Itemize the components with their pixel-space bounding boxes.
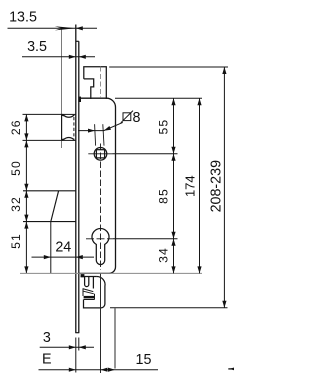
arrow E left (pointing right) — [69, 368, 76, 372]
left bracket slant edge — [51, 191, 59, 222]
arrow 13.5 right — [76, 26, 83, 30]
rod slot right hidden edge (dashed) — [73, 117, 75, 139]
extension line 3 right (faceplate back, below) — [78, 338, 80, 351]
lower piece ledge diagonal B — [83, 291, 94, 294]
arrow pair at 221.6 — [24, 215, 28, 229]
faceplate front edge — [75, 25, 77, 333]
arrow 13.5 left — [55, 26, 76, 30]
arrow 208-239 top up — [222, 67, 226, 74]
bottom screw mark — [81, 274, 85, 277]
slot bottom left tick — [62, 138, 64, 141]
arrow 208-239 bottom down — [222, 301, 226, 308]
arrow 24 right — [76, 255, 83, 259]
svg-text:34: 34 — [156, 247, 170, 263]
svg-text:51: 51 — [9, 233, 23, 249]
square symbol slash — [121, 111, 133, 123]
long extension line case bottom — [20, 272, 202, 274]
arrow pair at cylinder center — [171, 232, 175, 246]
svg-text:50: 50 — [9, 160, 23, 176]
svg-text:3: 3 — [43, 330, 51, 346]
projection line left — [95, 124, 96, 145]
extension line lower piece bottom (208-239 bottom) — [110, 307, 228, 309]
projection line right — [103, 124, 104, 145]
extension line cylinder center — [113, 238, 178, 240]
top connector notch step — [84, 79, 94, 99]
svg-text:32: 32 — [9, 196, 23, 212]
extension line case top — [115, 97, 202, 99]
dimension 24 line — [32, 256, 95, 258]
svg-text:208-239: 208-239 — [208, 160, 224, 213]
extension axis line below piece — [100, 274, 102, 373]
cropped arrow fragment at right edge — [230, 368, 235, 371]
faceplate back edge — [78, 41, 80, 332]
left chain extension slot bottom — [23, 139, 62, 141]
lower piece right shoulder and outline — [84, 277, 106, 308]
extension line case right edge below — [114, 308, 116, 368]
svg-text:85: 85 — [156, 188, 170, 204]
follower square 8mm — [96, 150, 104, 158]
rod slot top arc — [63, 115, 74, 117]
dimension 3.5 line — [22, 56, 95, 58]
dimension 13.5 line — [8, 27, 98, 29]
square 8 symbol — [123, 113, 131, 121]
extension line E left / 3 left (faceplate front, below) — [75, 338, 77, 373]
leader arrow left (pointing right) — [88, 129, 95, 133]
arrow 3 left — [69, 345, 76, 349]
left bracket bottom edge — [23, 221, 76, 223]
svg-text:55: 55 — [156, 119, 170, 135]
faceplate bottom cap — [75, 332, 79, 334]
lower connector piece top edge — [81, 276, 97, 278]
lower piece thick bar — [84, 296, 95, 299]
bracket edge extension down — [50, 222, 52, 274]
follower circle — [94, 148, 107, 161]
rod slot bottom arc — [63, 138, 74, 140]
right chain dim line 55/85/34 — [173, 98, 175, 273]
leader line from square symbol — [104, 122, 123, 130]
arrow 3.5 left — [69, 55, 76, 59]
left chain extension 26 top — [23, 113, 62, 115]
extension line follower center — [113, 153, 178, 155]
dimension 208-239 line — [223, 67, 225, 308]
left dimension chain line — [25, 114, 27, 273]
follower horizontal centerline — [88, 153, 112, 155]
svg-text:15: 15 — [136, 352, 152, 368]
svg-text:174: 174 — [183, 175, 198, 197]
arrow 174 bottom down — [197, 266, 201, 273]
svg-text:E: E — [42, 351, 52, 367]
arrow 3.5 right — [79, 55, 86, 59]
arrow pair at 140.4 — [24, 133, 28, 147]
arrow 55 top up — [171, 98, 175, 105]
lower piece U-slot — [85, 277, 89, 287]
rod slot top end line — [62, 113, 76, 115]
extension line top piece (208-239 top) — [109, 66, 228, 68]
arrow 34 bottom down — [171, 266, 175, 273]
svg-text:26: 26 — [9, 119, 23, 135]
lock case outline — [79, 98, 116, 273]
arrow 174 top up — [197, 98, 201, 105]
arrow 3 right — [79, 345, 86, 349]
leader horizontal line — [78, 130, 104, 132]
arrow 15 left (pointing left at axis) — [101, 368, 108, 372]
drive rod left edge — [61, 29, 63, 148]
faceplate top cap — [76, 40, 79, 42]
lower piece inner vertical — [92, 277, 94, 289]
lower piece bottom ledge line — [84, 299, 95, 301]
svg-text:24: 24 — [55, 239, 71, 255]
rod slot left edge — [61, 114, 63, 140]
arrow pair at 190.8 — [24, 184, 28, 198]
centerline above case (dashed) — [100, 67, 102, 99]
leader arrow right (pointing left at projection) — [104, 126, 111, 131]
cylinder horizontal centerline — [86, 238, 113, 240]
rod slot bottom end line — [62, 139, 76, 141]
arrow 24 left — [44, 255, 51, 259]
arrow pair at follower center — [171, 147, 175, 161]
cropped dimension line fragment at right edge — [228, 368, 234, 370]
top connector piece outline — [84, 67, 107, 99]
euro cylinder profile — [92, 229, 109, 265]
dimension E and 15 shared line — [39, 369, 159, 371]
svg-text:8: 8 — [133, 110, 141, 126]
lower piece ledge diagonal A — [83, 289, 94, 292]
svg-text:13.5: 13.5 — [9, 10, 37, 26]
vertical centerline follower-cylinder (dashed) — [100, 144, 102, 271]
dimension 3 line — [40, 346, 94, 348]
arrow chain bottom down — [24, 266, 28, 273]
lower piece left edge upper — [82, 289, 84, 296]
dimension 174 line — [199, 98, 201, 273]
left bracket top edge — [23, 190, 76, 192]
lower piece ledge right vertical — [94, 294, 96, 300]
top screw mark — [78, 97, 81, 102]
arrow 15 right (pointing right at case edge) — [108, 368, 115, 372]
slot top left tick — [62, 114, 64, 117]
svg-text:3.5: 3.5 — [27, 39, 47, 55]
arrow chain top up — [24, 114, 28, 121]
